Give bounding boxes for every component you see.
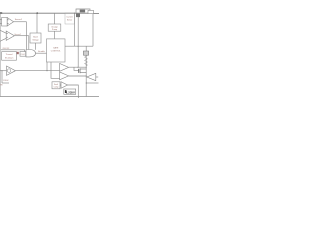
svg-text:Enable: Enable [38,51,45,53]
svg-text:Charge: Charge [51,26,58,28]
svg-text:CONTROL: CONTROL [51,50,62,52]
svg-text:FB: FB [0,84,3,86]
svg-text:Current: Current [66,15,73,18]
svg-text:Sense: Sense [67,20,72,22]
svg-text:Band: Band [33,37,37,39]
svg-text:1.235V: 1.235V [66,90,75,94]
svg-text:UVLO: UVLO [20,54,25,56]
svg-text:Fault: Fault [54,83,58,86]
svg-text:Sense2: Sense2 [14,34,20,36]
svg-text:ON/OFF: ON/OFF [2,48,10,50]
svg-text:Comp: Comp [54,87,59,89]
svg-text:1.240V: 1.240V [3,80,9,82]
svg-text:Thermal: Thermal [6,53,14,56]
svg-text:Pump: Pump [52,29,58,31]
svg-text:Sense1: Sense1 [15,19,23,21]
svg-text:Voltage: Voltage [32,39,38,42]
svg-text:Shutdown: Shutdown [5,56,13,59]
svg-text:GATE: GATE [53,47,59,50]
